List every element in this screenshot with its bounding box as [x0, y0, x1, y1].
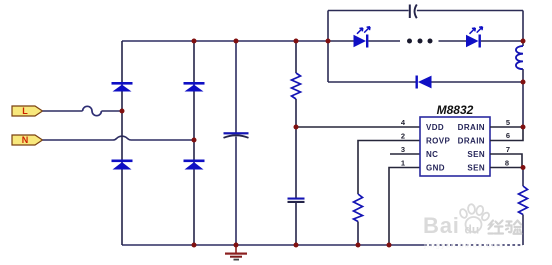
node dots (LED string continuation) — [407, 39, 433, 44]
svg-text:M8832: M8832 — [437, 103, 474, 117]
svg-text:3: 3 — [401, 145, 405, 154]
svg-text:SEN: SEN — [467, 150, 485, 159]
svg-text:du: du — [465, 223, 480, 237]
wire SEN pin7 — [490, 154, 522, 168]
node dot N input — [192, 138, 197, 143]
node dot top rail at loop — [326, 39, 331, 44]
capacitor C3 (snubber, top line) — [409, 5, 417, 19]
wire sense resistor to bottom rail — [522, 215, 524, 246]
node dot bottom rail at ground — [234, 243, 239, 248]
svg-text:L: L — [22, 106, 28, 116]
svg-text:Bai: Bai — [423, 213, 460, 238]
fuse FL1 on L line — [83, 106, 102, 115]
svg-text:N: N — [22, 135, 29, 145]
node dot bottom rail at R2 — [356, 243, 361, 248]
wire right rail top — [522, 11, 524, 47]
node dot drain pins — [521, 125, 526, 130]
svg-text:GND: GND — [426, 164, 445, 173]
svg-text:7: 7 — [506, 145, 510, 154]
wire bridge right leg — [193, 41, 195, 245]
terminal L — [12, 106, 43, 116]
wire bulk-cap leg upper — [235, 41, 237, 133]
node dot top rail at R1 chain — [294, 39, 299, 44]
diode D1 (bridge upper-left) — [112, 82, 133, 92]
terminal N — [12, 135, 43, 145]
node dot right rail freewheel row — [521, 80, 526, 85]
svg-text:DRAIN: DRAIN — [458, 123, 485, 132]
wire right rail below inductor — [522, 69, 524, 127]
node dot top rail at bulk cap — [234, 39, 239, 44]
wire L-to-fuse — [43, 110, 83, 112]
node dot bottom rail at C2 — [294, 243, 299, 248]
wire top rail — [122, 40, 328, 42]
wire hop over left leg — [113, 136, 131, 140]
diode D5 (freewheel) — [416, 76, 432, 89]
resistor R1 (VDD supply) — [292, 73, 301, 99]
node dot L input — [120, 109, 125, 114]
wire sense net vertical — [522, 168, 524, 187]
svg-text:VDD: VDD — [426, 123, 444, 132]
wire NC stub (pin3) — [390, 153, 420, 155]
diode D4 (bridge lower-right) — [184, 160, 205, 170]
wire N-to-hop — [43, 139, 114, 141]
watermark baidu jingyan — [423, 204, 522, 250]
resistor R2 (ROVP divider) — [354, 194, 363, 222]
node dot top rail at right leg — [192, 39, 197, 44]
diode D3 (bridge lower-left) — [112, 160, 133, 170]
svg-text:6: 6 — [506, 131, 510, 140]
wire vdd chain top — [295, 41, 297, 73]
svg-text:jingyan.baidu.com: jingyan.baidu.com — [423, 243, 504, 250]
wire fuse-to-bridge — [101, 110, 122, 112]
wire DRAIN pin5 — [490, 126, 523, 128]
svg-text:2: 2 — [401, 132, 405, 141]
svg-text:1: 1 — [401, 159, 405, 168]
wire LED row segment 4 — [481, 40, 523, 42]
node dot right rail LED row — [521, 39, 526, 44]
diode D2 (bridge upper-right) — [184, 82, 205, 92]
wire DRAIN pin6 — [490, 127, 523, 141]
wire GND net (pin1) — [389, 168, 420, 246]
svg-text:DRAIN: DRAIN — [458, 137, 485, 146]
wire hop-to-bridge — [131, 139, 194, 141]
node dot sen pins — [521, 165, 526, 170]
wire bottom rail — [122, 244, 424, 246]
wire VDD net (pin4) — [296, 126, 420, 128]
wire freewheel row left — [328, 81, 416, 83]
wire bridge left leg — [121, 41, 123, 245]
wire SEN pin8 — [490, 167, 523, 169]
wire LED row segment 3 — [439, 40, 467, 42]
op-amp U1 M8832 box — [420, 103, 490, 176]
node dot VDD tap — [294, 125, 299, 130]
wire bulk-cap leg lower — [235, 137, 237, 246]
LED LED1 — [354, 27, 371, 48]
svg-text:ROVP: ROVP — [426, 137, 451, 146]
wire freewheel row right — [432, 81, 524, 83]
watermark char jing — [489, 221, 504, 234]
svg-text:5: 5 — [506, 118, 510, 127]
inductor L1 — [516, 46, 523, 69]
wire LED-loop left vertical — [327, 11, 329, 83]
wire R2 to bottom rail — [357, 222, 359, 246]
wire LED row segment 2 — [368, 40, 400, 42]
capacitor C1 (bulk) — [224, 132, 249, 138]
ground — [225, 245, 247, 261]
wire vdd chain bottom — [295, 203, 297, 245]
LED LED2 — [466, 27, 483, 48]
svg-text:8: 8 — [505, 159, 509, 168]
node dot bottom rail at GND net — [387, 243, 392, 248]
wire vdd chain middle — [295, 99, 297, 198]
wire LED-loop top line left — [328, 10, 409, 12]
watermark char yan — [506, 221, 522, 234]
wire LED row segment 1 — [328, 40, 354, 42]
svg-text:SEN: SEN — [467, 164, 485, 173]
resistor R3 (sense) — [519, 186, 528, 215]
capacitor C2 (VDD bypass) — [288, 198, 305, 204]
node dot bottom rail at right leg — [192, 243, 197, 248]
svg-text:NC: NC — [426, 150, 438, 159]
wire LED-loop top line right — [417, 10, 523, 12]
wire ROVP net (pin2) — [358, 141, 420, 195]
wire bottom rail dashed under watermark — [424, 244, 523, 246]
